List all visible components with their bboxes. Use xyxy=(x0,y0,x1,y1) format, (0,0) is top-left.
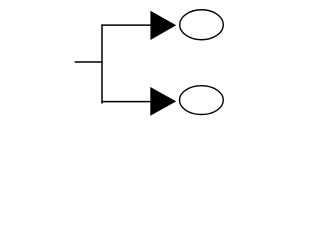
arrowhead top xyxy=(150,11,176,40)
wire bottom branch xyxy=(101,101,151,103)
node top ellipse xyxy=(180,10,224,40)
wire input stub xyxy=(75,61,103,63)
wire vertical bus xyxy=(101,24,103,103)
node bottom ellipse xyxy=(180,86,224,115)
arrowhead bottom xyxy=(150,87,176,116)
wire top branch xyxy=(101,24,151,26)
